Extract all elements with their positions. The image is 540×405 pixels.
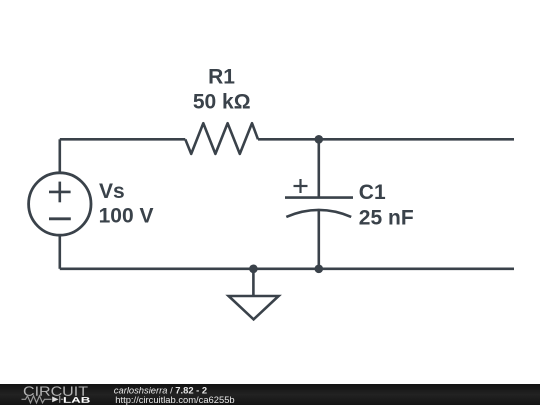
svg-text:C1: C1 <box>359 181 386 204</box>
svg-text:50 kΩ: 50 kΩ <box>193 91 251 114</box>
svg-text:http://circuitlab.com/ca6255b: http://circuitlab.com/ca6255b <box>115 394 234 405</box>
svg-text:25 nF: 25 nF <box>359 206 414 229</box>
svg-text:100 V: 100 V <box>99 205 154 228</box>
svg-text:LAB: LAB <box>63 396 91 405</box>
svg-text:R1: R1 <box>208 66 235 89</box>
svg-text:Vs: Vs <box>99 180 125 203</box>
